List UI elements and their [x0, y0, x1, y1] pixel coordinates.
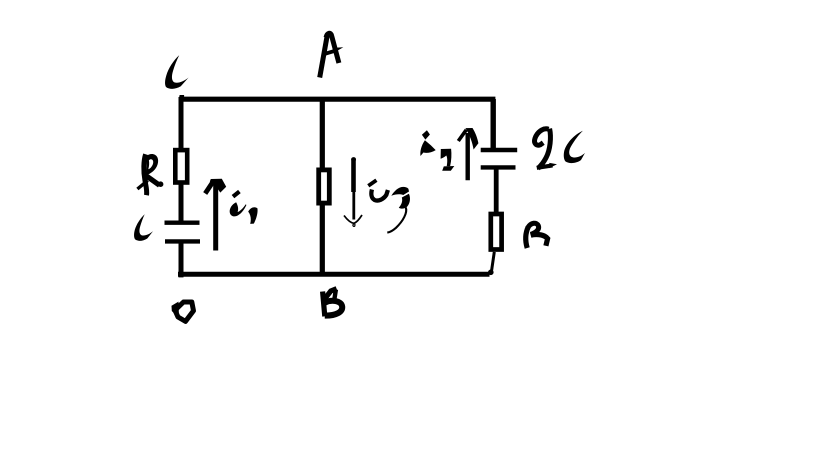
- capacitor C2 (2C) top plate: [481, 148, 518, 153]
- capacitor C1 bottom plate: [165, 239, 200, 243]
- wire right branch middle: [494, 167, 499, 214]
- wire bottom O-B-right: [178, 272, 490, 277]
- arrow i3 head: [344, 215, 362, 223]
- arrow i3 shaft: [351, 157, 356, 162]
- wire right branch stub to bottom: [491, 252, 494, 273]
- label R (left resistor): [137, 154, 163, 195]
- label node B: [323, 289, 343, 317]
- label node A: [320, 33, 344, 77]
- label i3: [368, 180, 410, 232]
- label C (left capacitor): [134, 214, 153, 241]
- label i2: [420, 130, 454, 171]
- wire middle branch: [320, 99, 325, 273]
- label 2C (right capacitor): [535, 129, 585, 169]
- arrow i2 shaft: [466, 133, 470, 180]
- label node O: [172, 302, 194, 322]
- arrow i1 shaft: [213, 184, 218, 251]
- wire right branch upper: [491, 99, 496, 150]
- label i1: [230, 192, 258, 224]
- wire left branch lower: [179, 242, 184, 278]
- arrow i1 head: [205, 181, 213, 194]
- junction blob bottom right: [488, 270, 494, 276]
- node C corner nub: [180, 95, 185, 99]
- capacitor C1 top plate: [165, 220, 200, 224]
- wire top C-A-right: [179, 97, 495, 102]
- resistor R2 (middle): [319, 170, 330, 203]
- arrow i2 head: [458, 130, 466, 141]
- capacitor C2 (2C) bottom plate: [481, 165, 516, 169]
- resistor R1 (left): [175, 150, 187, 182]
- resistor R3 (right): [491, 214, 502, 250]
- label node C (top left): [165, 55, 189, 89]
- wire left branch upper: [179, 97, 184, 222]
- label R (right resistor): [526, 223, 548, 248]
